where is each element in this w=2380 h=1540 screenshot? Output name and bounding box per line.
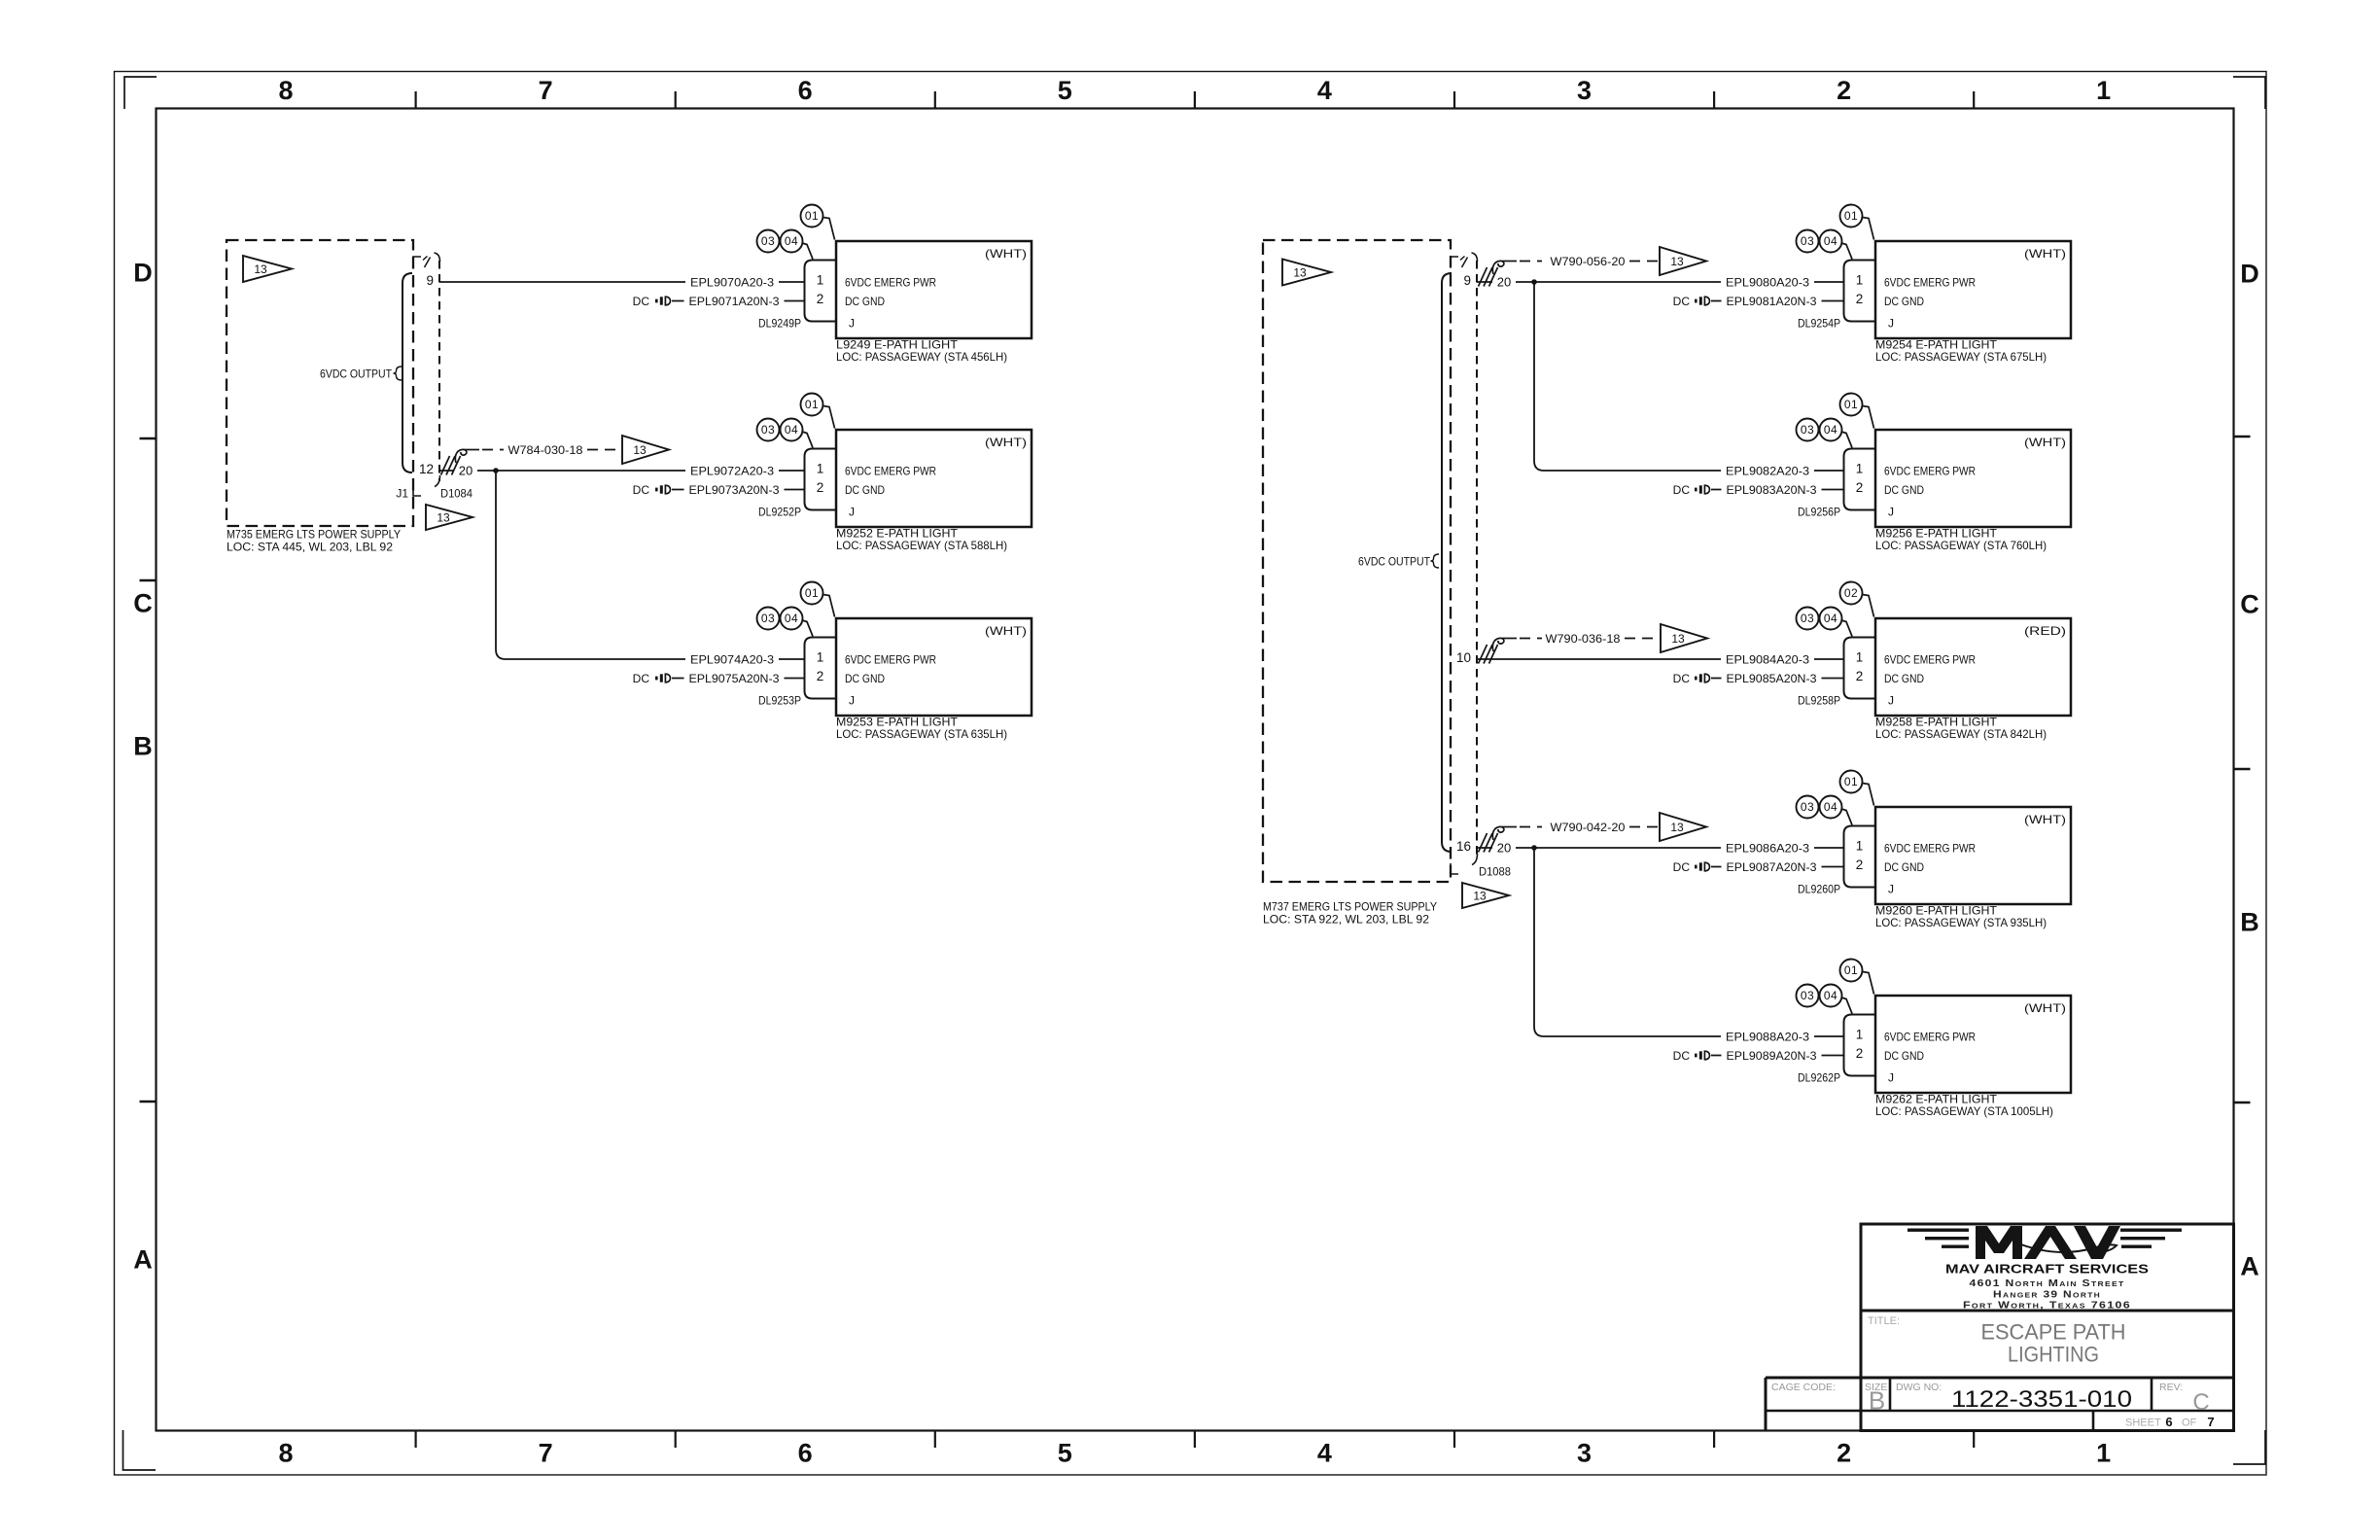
wire: M737 pin 16 to M9260 pin 1 — [1477, 847, 1844, 849]
svg-text:TITLE:: TITLE: — [1868, 1315, 1900, 1327]
svg-text:(RED): (RED) — [2024, 624, 2066, 638]
DC contact symbol — [1695, 299, 1697, 303]
DC return wire EPL9073A20N-3 — [672, 489, 805, 491]
wire label 20 (D1088 pin 16) — [1492, 840, 1516, 856]
divider dwg/rev — [2151, 1378, 2153, 1411]
balloon 04 — [802, 620, 813, 637]
wire: branch to M9253 pin 1 — [496, 471, 805, 659]
balloon 03 — [1797, 985, 1819, 1007]
svg-text:Hanger 39 North: Hanger 39 North — [1993, 1290, 2101, 1301]
E-path light box M9253 — [836, 618, 1032, 716]
svg-text:EPL9071A20N-3: EPL9071A20N-3 — [689, 295, 780, 308]
DC return wire EPL9075A20N-3 — [672, 678, 805, 680]
zone tick bottom — [1194, 1431, 1196, 1448]
svg-text:7: 7 — [539, 1439, 553, 1468]
svg-text:EPL9075A20N-3: EPL9075A20N-3 — [689, 672, 780, 685]
svg-text:01: 01 — [1844, 398, 1858, 411]
svg-text:DC: DC — [633, 483, 650, 497]
DC contact symbol — [655, 677, 658, 681]
svg-text:DC GND: DC GND — [845, 672, 885, 685]
svg-text:(WHT): (WHT) — [2024, 813, 2066, 826]
shield lead W784-030-18 — [482, 449, 504, 451]
connector shell bottom hook (D1088) — [1472, 854, 1478, 865]
DC return wire EPL9085A20N-3 — [1711, 678, 1844, 680]
svg-text:DC GND: DC GND — [1884, 860, 1924, 874]
balloon 04 — [1841, 243, 1852, 260]
divider size/dwg — [1889, 1378, 1892, 1411]
svg-text:W790-042-20: W790-042-20 — [1551, 821, 1626, 834]
svg-text:4: 4 — [1317, 76, 1332, 105]
svg-text:SHEET: SHEET — [2125, 1417, 2161, 1429]
MAV logo letter V — [2074, 1226, 2120, 1259]
svg-text:8: 8 — [278, 1439, 293, 1468]
svg-text:01: 01 — [805, 586, 819, 600]
svg-text:04: 04 — [785, 423, 798, 437]
svg-text:01: 01 — [805, 398, 819, 411]
E-path light box M9254 — [1875, 241, 2071, 338]
svg-text:DL9254P: DL9254P — [1798, 316, 1840, 330]
zone tick bottom — [1453, 1431, 1455, 1448]
svg-text:DL9249P: DL9249P — [758, 316, 801, 330]
svg-text:2: 2 — [1856, 480, 1864, 495]
svg-text:J: J — [849, 316, 855, 330]
zone tick top — [1453, 91, 1455, 108]
svg-text:3: 3 — [1577, 76, 1592, 105]
svg-text:J: J — [849, 505, 855, 518]
balloon 01 — [823, 595, 835, 617]
svg-text:EPL9073A20N-3: EPL9073A20N-3 — [689, 483, 780, 497]
connector DL9262P — [1844, 1015, 1876, 1076]
svg-text:DC GND: DC GND — [1884, 483, 1924, 497]
divider cage/size — [1860, 1378, 1863, 1431]
connector D1088 dashed line — [1476, 261, 1478, 859]
corner bracket bottom-right — [2233, 1430, 2265, 1464]
wire label EPL9080A20-3 — [1721, 274, 1814, 290]
svg-text:(WHT): (WHT) — [2024, 436, 2066, 449]
flag 13 (M735 internal) — [243, 256, 292, 282]
wire: branch to M9262 pin 1 — [1534, 848, 1844, 1036]
balloon 03 — [757, 608, 780, 630]
svg-text:W790-036-18: W790-036-18 — [1546, 632, 1621, 646]
svg-text:13: 13 — [1293, 265, 1307, 279]
MAV logo letter A — [2024, 1226, 2077, 1259]
svg-text:03: 03 — [1801, 612, 1814, 625]
svg-text:03: 03 — [1801, 800, 1814, 814]
svg-text:DC: DC — [1673, 672, 1691, 685]
wire label EPL9082A20-3 — [1721, 463, 1814, 478]
svg-text:2: 2 — [1856, 857, 1864, 872]
svg-text:20: 20 — [1497, 274, 1511, 289]
svg-text:2: 2 — [1837, 76, 1851, 105]
divider sheet cell — [2092, 1411, 2095, 1431]
svg-text:DL9253P: DL9253P — [758, 693, 801, 707]
svg-text:16: 16 — [1456, 839, 1471, 854]
balloon 03 — [1797, 608, 1819, 630]
svg-text:J1: J1 — [396, 486, 408, 500]
svg-text:2: 2 — [817, 292, 824, 306]
flag 13 (W790-042-20) — [1660, 813, 1706, 841]
shield twist (M737 pin16) — [1479, 833, 1487, 853]
svg-text:6VDC EMERG PWR: 6VDC EMERG PWR — [1884, 464, 1976, 477]
svg-text:DL9260P: DL9260P — [1798, 882, 1840, 895]
flag 13 (below D1084) — [426, 505, 472, 530]
DC contact symbol — [655, 299, 658, 303]
zone tick top — [415, 91, 417, 108]
svg-text:DC: DC — [633, 672, 650, 685]
svg-text:13: 13 — [1671, 632, 1685, 646]
shield lead W790-056-20 — [1520, 261, 1542, 262]
svg-text:MAV AIRCRAFT SERVICES: MAV AIRCRAFT SERVICES — [1945, 1262, 2149, 1277]
svg-text:DC GND: DC GND — [1884, 672, 1924, 685]
svg-text:M735 EMERG LTS POWER SUPPLY: M735 EMERG LTS POWER SUPPLY — [227, 527, 401, 541]
E-path light box M9256 — [1875, 430, 2071, 527]
svg-text:EPL9082A20-3: EPL9082A20-3 — [1726, 464, 1809, 477]
wire label EPL9083A20N-3 — [1722, 482, 1822, 498]
D1088 step — [1451, 863, 1458, 874]
svg-text:03: 03 — [761, 612, 775, 625]
power supply M737 dashed box — [1263, 240, 1451, 882]
inner border — [157, 109, 2234, 1431]
E-path light box M9260 — [1875, 807, 2071, 904]
svg-text:DC GND: DC GND — [845, 483, 885, 497]
svg-text:LOC: STA 445, WL 203, LBL 92: LOC: STA 445, WL 203, LBL 92 — [227, 540, 393, 553]
svg-text:1: 1 — [1856, 1028, 1864, 1042]
output bracket (M735) — [402, 273, 412, 472]
svg-text:2: 2 — [1837, 1439, 1851, 1468]
svg-text:2: 2 — [817, 480, 824, 495]
svg-text:1: 1 — [817, 650, 824, 665]
flag 13 (W784-030-18) — [622, 436, 669, 464]
MAV logo letter M — [1976, 1226, 2022, 1259]
zone tick left — [140, 437, 157, 439]
E-path light box M9262 — [1875, 996, 2071, 1093]
zone tick left — [140, 579, 157, 581]
svg-text:1: 1 — [1856, 462, 1864, 476]
zone tick bottom — [1973, 1431, 1975, 1448]
svg-text:B: B — [1869, 1386, 1885, 1416]
DC contact symbol — [1695, 1054, 1697, 1058]
cage code cell left edge — [1765, 1378, 1767, 1431]
svg-text:LOC: PASSAGEWAY (STA 842LH): LOC: PASSAGEWAY (STA 842LH) — [1875, 727, 2047, 741]
svg-text:3: 3 — [1577, 1439, 1592, 1468]
svg-text:7: 7 — [539, 76, 553, 105]
svg-text:EPL9070A20-3: EPL9070A20-3 — [690, 275, 774, 289]
svg-text:6: 6 — [2165, 1415, 2172, 1429]
connector shell top hook (D1088) — [1472, 253, 1478, 262]
svg-text:9: 9 — [1463, 273, 1471, 288]
svg-text:D: D — [133, 259, 153, 288]
svg-text:04: 04 — [1824, 800, 1837, 814]
wire label EPL9088A20-3 — [1721, 1029, 1814, 1044]
balloon 01 — [823, 218, 835, 240]
svg-text:03: 03 — [1801, 989, 1814, 1002]
svg-text:9: 9 — [426, 273, 434, 288]
svg-text:6VDC EMERG PWR: 6VDC EMERG PWR — [1884, 1030, 1976, 1043]
svg-text:6VDC EMERG PWR: 6VDC EMERG PWR — [1884, 275, 1976, 289]
wire: M737 pin 9 to M9254 pin 1 — [1477, 281, 1844, 283]
logo wing lines left — [1907, 1229, 1969, 1232]
svg-text:C: C — [2240, 590, 2259, 619]
balloon 01 — [1863, 218, 1874, 240]
connector shell top hook (D1084) — [435, 253, 440, 262]
connector shell top step (M735) — [413, 257, 421, 267]
svg-text:REV:: REV: — [2159, 1382, 2183, 1393]
svg-text:04: 04 — [1824, 612, 1837, 625]
svg-text:CAGE CODE:: CAGE CODE: — [1771, 1382, 1836, 1393]
svg-text:01: 01 — [805, 209, 819, 223]
svg-text:EPL9072A20-3: EPL9072A20-3 — [690, 464, 774, 477]
svg-text:DWG NO:: DWG NO: — [1896, 1382, 1942, 1393]
svg-text:EPL9084A20-3: EPL9084A20-3 — [1726, 652, 1809, 666]
output bracket (M737) — [1442, 273, 1452, 852]
connector DL9258P — [1844, 638, 1876, 699]
svg-text:13: 13 — [1670, 255, 1684, 268]
corner bracket top-right — [2233, 77, 2265, 109]
svg-text:01: 01 — [1844, 775, 1858, 788]
svg-text:LOC: PASSAGEWAY (STA 935LH): LOC: PASSAGEWAY (STA 935LH) — [1875, 916, 2047, 929]
svg-text:OF: OF — [2182, 1417, 2197, 1429]
svg-text:6VDC EMERG PWR: 6VDC EMERG PWR — [845, 652, 936, 666]
svg-text:5: 5 — [1058, 76, 1072, 105]
svg-text:04: 04 — [1824, 989, 1837, 1002]
svg-text:DL9252P: DL9252P — [758, 505, 801, 518]
connector shell top step (M737) — [1451, 257, 1458, 267]
svg-text:ESCAPE PATH: ESCAPE PATH — [1981, 1320, 2126, 1345]
svg-text:B: B — [133, 732, 153, 761]
junction dot (pin12 branch) — [493, 468, 499, 473]
J1 step (M735) — [413, 485, 421, 496]
wire: branch to M9256 pin 1 — [1534, 282, 1844, 471]
svg-text:4: 4 — [1317, 1439, 1332, 1468]
flag 13 (M737 internal) — [1282, 260, 1331, 286]
svg-text:01: 01 — [1844, 209, 1858, 223]
svg-text:1: 1 — [1856, 839, 1864, 854]
svg-text:A: A — [2240, 1252, 2259, 1281]
svg-text:1: 1 — [1856, 273, 1864, 288]
svg-text:LOC: PASSAGEWAY (STA 1005LH): LOC: PASSAGEWAY (STA 1005LH) — [1875, 1104, 2053, 1118]
svg-text:DC: DC — [1673, 483, 1691, 497]
svg-text:13: 13 — [1670, 821, 1684, 834]
svg-text:DL9256P: DL9256P — [1798, 505, 1840, 518]
svg-text:M737 EMERG LTS POWER SUPPLY: M737 EMERG LTS POWER SUPPLY — [1263, 899, 1437, 913]
svg-text:2: 2 — [1856, 292, 1864, 306]
zone tick right — [2234, 436, 2251, 437]
svg-text:DL9258P: DL9258P — [1798, 693, 1840, 707]
wire label 20 (D1084 pin 12) — [454, 463, 477, 478]
wire label EPL9089A20N-3 — [1722, 1048, 1822, 1064]
DC return wire EPL9071A20N-3 — [672, 300, 805, 302]
DC contact symbol — [1695, 865, 1697, 869]
zone tick top — [1194, 91, 1196, 108]
svg-text:(WHT): (WHT) — [985, 624, 1027, 638]
wire label EPL9081A20N-3 — [1722, 294, 1822, 309]
svg-text:04: 04 — [1824, 423, 1837, 437]
svg-text:2: 2 — [817, 669, 824, 683]
junction dot (pin16 branch) — [1531, 845, 1537, 851]
DC return wire EPL9081A20N-3 — [1711, 300, 1844, 302]
logo wing lines right — [2120, 1229, 2182, 1232]
svg-text:EPL9081A20N-3: EPL9081A20N-3 — [1727, 295, 1817, 308]
DC contact symbol — [1695, 488, 1697, 492]
svg-text:D: D — [2240, 260, 2259, 289]
DC contact symbol — [1695, 677, 1697, 681]
svg-text:J: J — [1888, 505, 1894, 518]
svg-text:J: J — [1888, 882, 1894, 895]
svg-text:03: 03 — [761, 234, 775, 248]
svg-text:EPL9074A20-3: EPL9074A20-3 — [690, 652, 774, 666]
balloon 03 — [757, 419, 780, 441]
svg-text:03: 03 — [761, 423, 775, 437]
svg-text:6VDC EMERG PWR: 6VDC EMERG PWR — [845, 464, 936, 477]
svg-text:2: 2 — [1856, 669, 1864, 683]
balloon 01 — [823, 406, 835, 429]
DC return wire EPL9087A20N-3 — [1711, 866, 1844, 868]
connector DL9252P — [805, 449, 837, 510]
svg-text:J: J — [1888, 316, 1894, 330]
svg-text:LOC: PASSAGEWAY (STA 760LH): LOC: PASSAGEWAY (STA 760LH) — [1875, 539, 2047, 552]
title block divider (logo/title) — [1861, 1310, 2234, 1312]
svg-text:EPL9083A20N-3: EPL9083A20N-3 — [1727, 483, 1817, 497]
svg-text:6VDC OUTPUT: 6VDC OUTPUT — [320, 367, 393, 380]
title block divider (title/dwg row) — [1766, 1377, 2234, 1380]
connector DL9256P — [1844, 449, 1876, 510]
svg-text:13: 13 — [633, 443, 647, 457]
connector DL9260P — [1844, 826, 1876, 888]
connector DL9249P — [805, 261, 837, 322]
svg-text:LOC: PASSAGEWAY (STA 635LH): LOC: PASSAGEWAY (STA 635LH) — [836, 727, 1007, 741]
svg-text:1: 1 — [2096, 76, 2111, 105]
svg-text:EPL9089A20N-3: EPL9089A20N-3 — [1727, 1049, 1817, 1063]
shield twist (M737 pin10) — [1479, 645, 1487, 664]
balloon 04 — [802, 432, 813, 448]
svg-text:(WHT): (WHT) — [2024, 1001, 2066, 1015]
svg-text:13: 13 — [437, 510, 450, 524]
svg-text:Fort Worth, Texas 76106: Fort Worth, Texas 76106 — [1963, 1301, 2131, 1312]
svg-text:7: 7 — [2207, 1415, 2214, 1429]
MAV logo swoosh — [2013, 1242, 2117, 1253]
balloon 04 — [1841, 620, 1852, 637]
DC return wire EPL9083A20N-3 — [1711, 489, 1844, 491]
balloon 03 — [1797, 419, 1819, 441]
zone tick bottom — [415, 1431, 417, 1448]
corner bracket bottom-left — [123, 1430, 157, 1470]
svg-text:04: 04 — [1824, 234, 1837, 248]
connector DL9253P — [805, 638, 837, 699]
svg-text:20: 20 — [459, 463, 472, 477]
svg-text:4601 North Main Street: 4601 North Main Street — [1970, 1278, 2125, 1289]
balloon 02 — [1863, 595, 1874, 617]
svg-text:6VDC OUTPUT: 6VDC OUTPUT — [1358, 554, 1431, 568]
power supply M735 dashed box — [227, 240, 413, 526]
wire: M737 pin 10 to M9258 pin 1 — [1477, 658, 1844, 660]
svg-text:6VDC EMERG PWR: 6VDC EMERG PWR — [1884, 652, 1976, 666]
svg-text:EPL9085A20N-3: EPL9085A20N-3 — [1727, 672, 1817, 685]
wire label EPL9073A20N-3 — [684, 482, 785, 498]
balloon 04 — [1841, 997, 1852, 1014]
shield twist (M737 pin9) — [1479, 267, 1487, 287]
wire label EPL9074A20-3 — [685, 651, 779, 667]
svg-text:(WHT): (WHT) — [2024, 247, 2066, 261]
DC contact symbol — [655, 488, 658, 492]
corner bracket top-left — [124, 77, 157, 109]
balloon 01 — [1863, 406, 1874, 429]
balloon 04 — [1841, 432, 1852, 448]
brace (M735) — [394, 367, 402, 380]
svg-text:C: C — [2192, 1389, 2209, 1416]
title block divider (dwg/sheet row) — [1766, 1410, 2234, 1413]
svg-text:6: 6 — [798, 76, 813, 105]
svg-text:LOC: PASSAGEWAY (STA 588LH): LOC: PASSAGEWAY (STA 588LH) — [836, 539, 1007, 552]
svg-text:13: 13 — [1473, 889, 1487, 902]
svg-text:8: 8 — [278, 76, 293, 105]
svg-text:(WHT): (WHT) — [985, 247, 1027, 261]
svg-text:12: 12 — [419, 462, 434, 476]
svg-text:C: C — [133, 589, 153, 618]
title block outline — [1861, 1224, 2234, 1431]
wire label EPL9086A20-3 — [1721, 840, 1814, 856]
svg-text:LOC: PASSAGEWAY (STA 456LH): LOC: PASSAGEWAY (STA 456LH) — [836, 350, 1007, 364]
svg-text:6: 6 — [798, 1439, 813, 1468]
svg-text:20: 20 — [1497, 840, 1511, 855]
zone tick right — [2234, 768, 2251, 770]
zone tick top — [1973, 91, 1975, 108]
svg-text:(WHT): (WHT) — [985, 436, 1027, 449]
wire label EPL9085A20N-3 — [1722, 671, 1822, 686]
svg-text:1: 1 — [2096, 1439, 2111, 1468]
svg-text:EPL9080A20-3: EPL9080A20-3 — [1726, 275, 1809, 289]
svg-text:LIGHTING: LIGHTING — [2008, 1343, 2099, 1367]
shield lead W790-036-18 — [1520, 638, 1542, 640]
wire label EPL9087A20N-3 — [1722, 859, 1822, 875]
svg-text:J: J — [1888, 693, 1894, 707]
balloon 01 — [1863, 972, 1874, 995]
svg-text:13: 13 — [254, 262, 267, 276]
svg-text:1: 1 — [817, 462, 824, 476]
svg-text:6VDC EMERG PWR: 6VDC EMERG PWR — [845, 275, 936, 289]
svg-text:A: A — [133, 1245, 153, 1275]
svg-text:D1084: D1084 — [440, 486, 472, 500]
svg-text:6VDC EMERG PWR: 6VDC EMERG PWR — [1884, 841, 1976, 855]
wire label EPL9084A20-3 — [1721, 651, 1814, 667]
balloon 03 — [1797, 230, 1819, 253]
flag 13 (W790-056-20) — [1660, 247, 1706, 275]
shield lead W790-042-20 — [1520, 826, 1542, 828]
svg-text:03: 03 — [1801, 234, 1814, 248]
connector DL9254P — [1844, 261, 1876, 322]
svg-text:1: 1 — [1856, 650, 1864, 665]
balloon 01 — [1863, 784, 1874, 806]
svg-text:03: 03 — [1801, 423, 1814, 437]
wire label 20 (D1088 pin 9) — [1492, 274, 1516, 290]
svg-text:DC: DC — [633, 295, 650, 308]
zone tick bottom — [934, 1431, 936, 1448]
E-path light box M9252 — [836, 430, 1032, 527]
svg-text:DC GND: DC GND — [1884, 295, 1924, 308]
DC return wire EPL9089A20N-3 — [1711, 1055, 1844, 1057]
balloon 04 — [1841, 809, 1852, 825]
zone tick top — [675, 91, 677, 108]
svg-text:04: 04 — [785, 234, 798, 248]
svg-text:D1088: D1088 — [1479, 864, 1511, 878]
wire label EPL9072A20-3 — [685, 463, 779, 478]
balloon 03 — [757, 230, 780, 253]
svg-text:J: J — [1888, 1070, 1894, 1084]
brace (M737) — [1431, 554, 1440, 568]
wire label EPL9071A20N-3 — [684, 294, 785, 309]
connector shell bottom hook (D1084) — [435, 475, 440, 487]
svg-text:LOC: STA 922, WL 203, LBL 92: LOC: STA 922, WL 203, LBL 92 — [1263, 912, 1429, 926]
balloon 04 — [802, 243, 813, 260]
